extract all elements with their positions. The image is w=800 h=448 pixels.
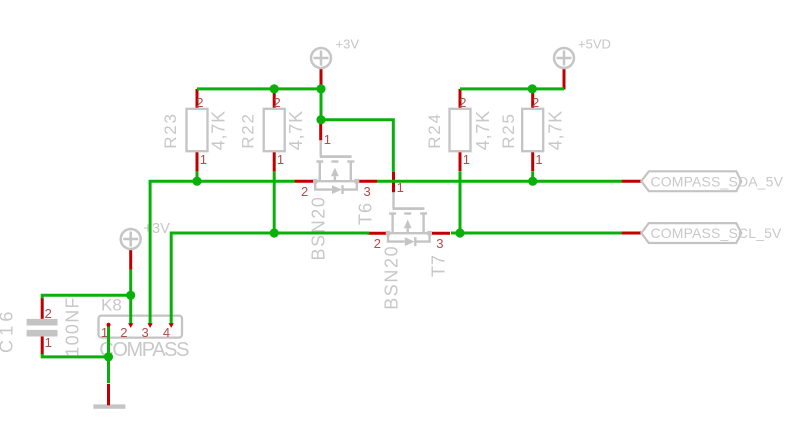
T6 gate pin 1 stub <box>319 120 322 141</box>
capacitor C16 pin stubs <box>41 298 44 319</box>
svg-text:2: 2 <box>45 306 52 321</box>
node R22 / top rail <box>270 84 279 93</box>
svg-text:2: 2 <box>196 95 203 110</box>
wire C16 bottom to gnd node <box>42 354 108 357</box>
svg-text:K8: K8 <box>101 296 122 315</box>
svg-text:R24: R24 <box>425 112 444 149</box>
svg-text:2: 2 <box>301 184 308 199</box>
svg-text:+3V: +3V <box>144 221 171 237</box>
resistor R24 body <box>450 109 471 151</box>
svg-text:2: 2 <box>459 95 466 110</box>
svg-text:1: 1 <box>324 132 331 147</box>
node R25 / SDA <box>528 177 537 186</box>
body diode <box>405 237 415 246</box>
svg-text:1: 1 <box>535 152 542 167</box>
svg-text:2: 2 <box>273 95 280 110</box>
wire R25 to SDA net <box>531 171 534 181</box>
svg-text:R22: R22 <box>238 112 257 149</box>
ground pin stub <box>107 384 110 405</box>
svg-text:3: 3 <box>436 236 443 251</box>
node R23 / SDA <box>192 177 201 186</box>
svg-text:1: 1 <box>277 152 284 167</box>
pin 4 mark <box>169 323 174 328</box>
svg-text:COMPASS_SDA_5V: COMPASS_SDA_5V <box>651 173 784 189</box>
resistor R22 pin stubs <box>273 89 276 109</box>
wire K8 pin1 down <box>107 325 110 357</box>
resistor R24 pin stubs <box>459 89 462 109</box>
wire C16 top to K8 <box>42 295 131 298</box>
pin 3 stub <box>359 180 377 183</box>
power +3V left pin stub <box>129 249 132 270</box>
svg-text:T6: T6 <box>356 202 376 225</box>
wire R24 to SCL net <box>459 171 462 233</box>
svg-text:4: 4 <box>163 325 170 340</box>
wire gate net to T7 <box>321 120 393 172</box>
power +3V top pin stub <box>320 68 323 90</box>
resistor R23 body <box>187 109 208 151</box>
svg-text:3: 3 <box>142 325 149 340</box>
C16 top plate <box>27 319 58 326</box>
C16 bottom plate <box>27 330 58 337</box>
svg-text:C16: C16 <box>0 307 17 353</box>
svg-text:4,7K: 4,7K <box>473 110 493 150</box>
pin 3 mark <box>148 323 153 328</box>
wire +5VD rail top <box>460 87 564 90</box>
node +3V / top rail <box>316 84 325 93</box>
svg-text:2: 2 <box>120 325 127 340</box>
K8 connector body <box>99 316 183 338</box>
svg-text:2: 2 <box>532 95 539 110</box>
flag outline <box>641 223 741 243</box>
svg-text:1: 1 <box>45 335 52 350</box>
svg-text:3: 3 <box>364 184 371 199</box>
T7 mosfet symbol body <box>388 192 430 246</box>
pin 1 mark <box>107 323 111 327</box>
svg-text:R25: R25 <box>499 112 518 149</box>
node gate tee <box>316 115 325 124</box>
resistor R22 body <box>264 109 285 151</box>
resistor R23 pin stubs <box>196 89 199 109</box>
wire +3V left down to K8 pin2 <box>129 270 132 326</box>
transistor T7 gate pin stub <box>392 172 395 193</box>
pin 2 stub <box>295 180 314 183</box>
bulk arrow <box>331 168 339 177</box>
wire R22 to SCL net <box>273 171 276 233</box>
svg-text:1: 1 <box>463 152 470 167</box>
pin 2 stub <box>367 232 386 235</box>
node R25 / +5VD rail <box>528 84 537 93</box>
resistor R25 body <box>522 109 543 151</box>
svg-text:BSN20: BSN20 <box>309 195 329 260</box>
wire SCL 3V3 net <box>171 233 369 326</box>
svg-text:+3V: +3V <box>336 37 360 52</box>
bulk arrow <box>404 220 412 229</box>
svg-text:4,7K: 4,7K <box>209 110 229 150</box>
wire SDA 3V3 net <box>150 181 295 325</box>
svg-text:T7: T7 <box>428 254 448 277</box>
node R24,T7 / SCL <box>455 228 464 237</box>
body diode <box>332 185 342 194</box>
svg-text:4,7K: 4,7K <box>286 110 306 150</box>
wire +3V down segment <box>320 89 323 120</box>
svg-text:R23: R23 <box>161 112 180 149</box>
svg-text:COMPASS_SCL_5V: COMPASS_SCL_5V <box>651 225 783 241</box>
pin 2 mark <box>128 323 133 328</box>
svg-text:4,7K: 4,7K <box>546 110 566 150</box>
net stub COMPASS_SCL_5V <box>621 232 641 235</box>
wire SDA 5V net <box>377 180 621 183</box>
svg-text:2: 2 <box>374 236 381 251</box>
wire SCL 5V net <box>451 232 621 235</box>
svg-text:+5VD: +5VD <box>578 37 611 52</box>
node +3V / K8 pin2 / C16 <box>126 291 135 300</box>
flag outline <box>641 171 741 191</box>
svg-text:1: 1 <box>200 152 207 167</box>
node gnd / K8 pin1 / C16 <box>104 352 113 361</box>
wire +3V rail top <box>197 87 321 90</box>
resistor R25 pin stubs <box>531 89 534 109</box>
net stub COMPASS_SDA_5V <box>621 180 641 183</box>
svg-text:100NF: 100NF <box>63 296 83 357</box>
T6 mosfet symbol body <box>315 140 357 194</box>
svg-text:BSN20: BSN20 <box>381 245 401 310</box>
power +5VD pin stub <box>563 68 566 90</box>
pin 3 stub <box>432 232 450 235</box>
wire R23 bottom link <box>196 171 199 181</box>
node R22 / SCL <box>270 228 279 237</box>
wire gnd node down <box>107 357 110 383</box>
